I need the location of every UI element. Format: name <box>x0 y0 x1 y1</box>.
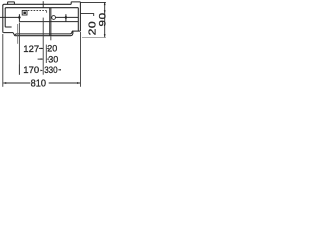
raised section right top <box>71 2 80 4</box>
dim row3 330 right arrow <box>58 69 61 71</box>
dim row3 arrowhead at seam <box>40 70 43 72</box>
inner top line <box>5 7 78 10</box>
dashed wiring line <box>28 10 47 12</box>
left inner edge <box>4 8 7 27</box>
inner cap bottom left <box>6 26 12 28</box>
svg-text:330: 330 <box>44 64 58 75</box>
svg-text:20: 20 <box>87 21 98 36</box>
mounting bolt 1 <box>18 14 21 21</box>
knockout stub <box>50 17 53 19</box>
right dim tick top <box>81 1 106 3</box>
extension line bolt1 <box>18 23 20 75</box>
extension line 127 <box>17 24 19 44</box>
mounting bolt 2 <box>65 14 68 21</box>
extension line right end <box>80 32 82 87</box>
knockout circle <box>52 16 56 20</box>
right outer edge <box>79 2 81 31</box>
raised box left top <box>8 2 15 4</box>
tick dashed-end <box>45 45 47 63</box>
left outer edge <box>3 5 4 33</box>
svg-text:810: 810 <box>31 78 46 89</box>
mid body line <box>19 21 78 23</box>
svg-text:170: 170 <box>23 65 39 76</box>
center line right <box>56 16 79 18</box>
right cap bottom <box>72 30 80 32</box>
shade inner line <box>15 31 72 35</box>
extension line seam <box>42 18 44 75</box>
right dim line <box>104 2 106 37</box>
right dim arrow down mid <box>104 10 106 13</box>
terminal box inner fill <box>23 12 26 14</box>
right dim tick mid <box>81 14 94 16</box>
luminaire dimension drawing 113x93 <box>0 0 113 93</box>
dim row2 30 arrow line <box>38 58 49 60</box>
dashed hook down <box>46 11 48 13</box>
dim row1 127 arrow line <box>39 48 49 50</box>
dim row1 20 left arrow <box>46 48 49 50</box>
ceiling center line left <box>0 16 19 18</box>
svg-text:127: 127 <box>23 44 39 55</box>
seam vertical above top <box>42 1 44 8</box>
right dim tick bottom <box>82 36 106 38</box>
extension line left end <box>2 34 4 87</box>
right dim arrow down bottom <box>104 34 106 37</box>
lamp unit verticals <box>49 8 51 36</box>
shade bottom line <box>15 32 73 36</box>
svg-text:30: 30 <box>48 54 58 64</box>
dim row3 tick 170 <box>18 65 20 75</box>
dim row4 810 line left <box>3 82 80 84</box>
extension line knockout <box>50 36 52 40</box>
right dim arrow up <box>104 2 106 5</box>
terminal box square <box>22 11 27 16</box>
svg-text:20: 20 <box>47 44 57 54</box>
svg-text:90: 90 <box>98 12 109 26</box>
left step down to shade <box>13 33 15 36</box>
left cap bottom <box>4 32 13 34</box>
fixture top main line <box>3 4 71 5</box>
dim row4 810 line right <box>49 82 80 84</box>
right inner edge <box>77 8 79 31</box>
